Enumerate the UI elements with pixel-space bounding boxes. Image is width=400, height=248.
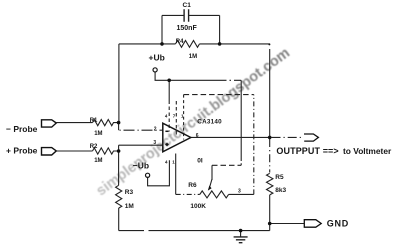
wire +Ub dash-dot right: [215, 79, 242, 81]
node feedback corner dot: [268, 43, 270, 45]
wire pot-left vertical: [175, 154, 177, 195]
wire to GND tag: [270, 223, 305, 225]
ground stub: [240, 231, 242, 237]
resistor R5: [267, 173, 273, 195]
wire right rail dash-dot vertical: [253, 95, 255, 195]
wire V+ vertical: [240, 80, 242, 158]
wire pin4 top to +Ub: [168, 80, 170, 100]
ground bars: [234, 237, 248, 243]
wire -Ub loop: [148, 160, 170, 186]
svg-text:R5: R5: [275, 174, 284, 181]
wire pin3: [119, 144, 163, 146]
wire left vertical feedback: [118, 44, 120, 123]
svg-text:150nF: 150nF: [177, 25, 198, 32]
wire -Probe to R1: [56, 122, 92, 124]
connector -Probe: [42, 120, 57, 127]
svg-text:1M: 1M: [125, 203, 134, 210]
wire pin2 dash-dot: [120, 129, 163, 131]
pin number labels: [153, 113, 241, 194]
resistor R3: [116, 185, 122, 208]
node ground tap junction: [239, 229, 243, 233]
svg-text:1M: 1M: [94, 158, 102, 164]
svg-text:to Voltmeter: to Voltmeter: [343, 146, 392, 156]
svg-text:R3: R3: [125, 189, 134, 196]
resistor R4: [176, 41, 200, 48]
svg-text:OUTPPUT ==>: OUTPPUT ==>: [276, 146, 338, 156]
svg-text:6: 6: [196, 133, 199, 139]
terminal -Ub: [146, 173, 150, 177]
svg-text:0I: 0I: [197, 158, 203, 165]
wire pin7 top dashed stub: [175, 101, 177, 136]
wire top bus right: [200, 43, 270, 45]
wire node to R3: [118, 151, 120, 185]
svg-text:C1: C1: [183, 2, 192, 9]
terminal +Ub: [153, 68, 157, 72]
resistor R1: [93, 120, 119, 126]
svg-text:R4: R4: [176, 39, 184, 45]
svg-text:3: 3: [238, 188, 241, 194]
svg-text:+ Probe: + Probe: [6, 145, 38, 155]
node GND branch junction: [268, 222, 272, 226]
wire bottom bus: [119, 230, 270, 232]
wire C1 loop left vertical: [161, 15, 163, 44]
wire +Probe to R2: [56, 150, 92, 152]
wire feedback right vertical: [269, 49, 271, 137]
svg-text:+Ub: +Ub: [149, 53, 165, 63]
wire C1 loop top right: [189, 14, 220, 16]
node C1 right junction: [218, 42, 222, 46]
potentiometer R6: [200, 191, 229, 198]
svg-text:100K: 100K: [190, 203, 206, 210]
svg-text:1M: 1M: [94, 131, 102, 137]
svg-text:2: 2: [154, 126, 157, 132]
node stub non-inverting input: [118, 145, 120, 151]
wire +Ub drop: [155, 72, 214, 80]
node non-inverting input junction: [117, 149, 121, 153]
wire top bus left: [119, 43, 176, 45]
wire op-amp output: [191, 136, 270, 138]
node stub inverting input: [118, 123, 120, 131]
svg-text:R6: R6: [188, 182, 197, 189]
wire R3 bottom: [118, 208, 120, 231]
op-amp U1 triangle: [163, 123, 191, 152]
svg-text:−Ub: −Ub: [133, 161, 149, 171]
potentiometer wiper arrow: [210, 179, 212, 187]
connector OUTPUT tag: [304, 134, 318, 141]
wire output node to R5 dash-dot: [269, 139, 271, 173]
node inverting input junction: [117, 121, 121, 125]
svg-text:3: 3: [153, 140, 156, 146]
svg-text:8k3: 8k3: [275, 187, 286, 194]
node C1 left junction: [160, 42, 164, 46]
node output junction: [268, 136, 272, 140]
connector +Probe: [42, 148, 57, 155]
wire pin1 top dashed: [183, 95, 185, 140]
wire wiper rail dashed: [212, 164, 241, 166]
connector GND tag: [304, 220, 321, 228]
wire pot left dash-dot: [176, 193, 200, 195]
wire C1 loop top left: [162, 14, 184, 16]
svg-text:R1: R1: [90, 118, 98, 124]
wire pot right: [229, 193, 254, 195]
wire R5 bottom: [269, 195, 271, 231]
svg-text:− Probe: − Probe: [6, 124, 38, 134]
svg-text:GND: GND: [327, 219, 349, 229]
resistor R2: [93, 148, 119, 154]
wire wiper vertical: [211, 165, 213, 180]
wire top rail dashed: [184, 94, 254, 96]
capacitor C1 plates: [184, 9, 189, 21]
wire C1 loop right vertical: [219, 15, 221, 44]
node +Ub junction: [167, 79, 171, 83]
minus input mark: [165, 130, 168, 132]
svg-text:1M: 1M: [189, 54, 197, 60]
wire output dash-dot to tag: [272, 136, 304, 138]
svg-text:R2: R2: [90, 144, 98, 150]
svg-text:CA3140: CA3140: [197, 119, 222, 126]
plus input mark: [165, 143, 168, 146]
